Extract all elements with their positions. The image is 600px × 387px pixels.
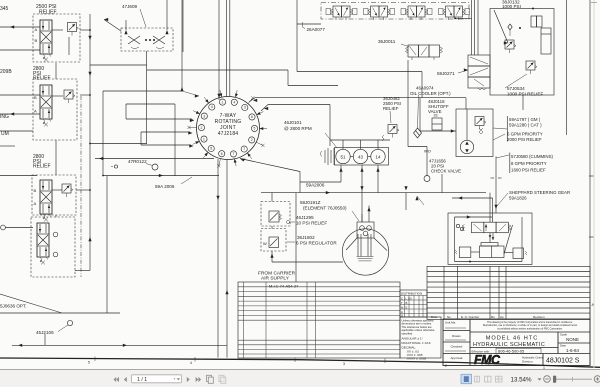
svg-text:7: 7 xyxy=(243,147,245,151)
svg-text:Ap: Ap xyxy=(500,315,504,319)
svg-text:RELIEF: RELIEF xyxy=(33,164,51,170)
svg-text:RELIEF: RELIEF xyxy=(39,10,57,16)
svg-text:33: 33 xyxy=(434,114,438,118)
svg-text:RELIEF: RELIEF xyxy=(383,106,399,111)
svg-text:NONE: NONE xyxy=(566,337,579,342)
svg-text:CHECK VALVE: CHECK VALVE xyxy=(431,169,461,174)
svg-text:59A2006: 59A2006 xyxy=(306,183,325,188)
svg-text:UM: UM xyxy=(1,131,9,137)
svg-text:No: No xyxy=(447,315,451,319)
svg-text:4: 4 xyxy=(211,105,213,109)
svg-text:2: 2 xyxy=(445,364,447,368)
svg-text:1000 PSI: 1000 PSI xyxy=(502,4,521,9)
svg-text:2: 2 xyxy=(251,138,253,142)
svg-text:Approval: Approval xyxy=(451,356,463,360)
svg-text:AIR SUPPLY: AIR SUPPLY xyxy=(261,276,290,282)
svg-text:10 PSI RELIEF: 10 PSI RELIEF xyxy=(296,221,327,226)
svg-text:ING: ING xyxy=(0,114,9,120)
svg-text:1000 PSI RELIEF: 1000 PSI RELIEF xyxy=(507,92,543,97)
svg-text:59A1826: 59A1826 xyxy=(509,196,527,201)
svg-text:1: 1 xyxy=(222,100,224,104)
svg-text:Unit Ma: Unit Ma xyxy=(445,321,456,325)
svg-text:2: 2 xyxy=(201,126,203,130)
svg-text:WO: WO xyxy=(424,149,431,154)
svg-text:Bu: Bu xyxy=(491,315,495,319)
svg-text:RELIEF: RELIEF xyxy=(33,76,51,82)
svg-text:B: B xyxy=(34,188,37,193)
svg-text:Revision: Revision xyxy=(533,315,545,319)
svg-text:14: 14 xyxy=(376,155,381,160)
svg-text:Date: Date xyxy=(560,344,566,348)
svg-text:47J609: 47J609 xyxy=(122,4,138,9)
svg-text:1: 1 xyxy=(203,137,205,141)
svg-text:1 / 1: 1 / 1 xyxy=(137,377,147,383)
svg-text:3: 3 xyxy=(244,106,246,110)
svg-text:59A 2006: 59A 2006 xyxy=(155,184,175,189)
svg-text:B: B xyxy=(34,95,37,100)
svg-text:FMC: FMC xyxy=(474,353,501,367)
svg-text:L 1/0: L 1/0 xyxy=(406,296,413,300)
svg-text:4: 4 xyxy=(233,101,235,105)
svg-text:is prohibited without written: is prohibited without written authorizat… xyxy=(497,327,563,330)
svg-text:.XXXX ± .0005: .XXXX ± .0005 xyxy=(406,357,427,361)
svg-text:MODEL 46 HTC: MODEL 46 HTC xyxy=(486,336,539,342)
svg-text:1-6-84: 1-6-84 xyxy=(566,348,580,353)
svg-text:46A0974: 46A0974 xyxy=(416,86,434,91)
svg-text:806-46-500-05: 806-46-500-05 xyxy=(498,349,525,354)
svg-text:5: 5 xyxy=(88,361,90,365)
svg-text:5: 5 xyxy=(254,127,256,131)
svg-text:HYDRAULIC SCHEMATIC: HYDRAULIC SCHEMATIC xyxy=(473,342,545,348)
svg-text:6: 6 xyxy=(251,115,253,119)
svg-text:59A1797 ( GM ): 59A1797 ( GM ) xyxy=(509,117,541,122)
svg-text:5J0636 OPT.: 5J0636 OPT. xyxy=(0,304,27,309)
svg-text:E. O. Number: E. O. Number xyxy=(461,315,479,319)
svg-text:ANGULAR ± 1°: ANGULAR ± 1° xyxy=(402,337,424,341)
svg-text:4: 4 xyxy=(190,361,192,365)
svg-text:5: 5 xyxy=(210,147,212,151)
svg-text:57J0580 (CUMMINS): 57J0580 (CUMMINS) xyxy=(511,154,554,159)
svg-text:345: 345 xyxy=(0,6,9,12)
svg-text:specified.: specified. xyxy=(402,331,414,335)
svg-text:1600 PSI RELIEF: 1600 PSI RELIEF xyxy=(511,168,546,173)
svg-text:13.54%: 13.54% xyxy=(511,376,532,383)
svg-text:209B: 209B xyxy=(0,69,12,75)
svg-text:DISTRIBUTION: DISTRIBUTION xyxy=(401,291,422,295)
svg-text:Drawn: Drawn xyxy=(452,334,461,338)
svg-text:58J0191Z: 58J0191Z xyxy=(300,200,321,205)
svg-text:6 PSI REGULATOR: 6 PSI REGULATOR xyxy=(296,241,337,246)
svg-text:B: B xyxy=(35,38,38,43)
svg-text:SHEPPARD STEERING GEAR: SHEPPARD STEERING GEAR xyxy=(509,190,570,195)
svg-text:3: 3 xyxy=(203,114,205,118)
svg-text:59J0271: 59J0271 xyxy=(437,71,455,76)
svg-text:6: 6 xyxy=(221,152,223,156)
svg-text:T: T xyxy=(401,301,403,305)
svg-text:6 GPM PRIORITY: 6 GPM PRIORITY xyxy=(507,132,543,137)
svg-text:Scale: Scale xyxy=(560,333,567,337)
svg-text:36J1802: 36J1802 xyxy=(297,235,315,240)
svg-text:A: A xyxy=(35,27,38,32)
svg-text:47R0122: 47R0122 xyxy=(128,159,147,164)
svg-text:C: C xyxy=(401,296,403,300)
svg-text:46J0101: 46J0101 xyxy=(284,120,302,125)
svg-text:46J1295: 46J1295 xyxy=(296,215,314,220)
svg-text:47J2184: 47J2184 xyxy=(218,131,239,137)
svg-text:E: E xyxy=(406,305,408,309)
svg-text:59A1280 ( CAT ): 59A1280 ( CAT ) xyxy=(509,123,542,128)
svg-text:(ELEMENT 76J0550): (ELEMENT 76J0550) xyxy=(303,206,347,211)
svg-text:FRACTIONAL ± 1/16: FRACTIONAL ± 1/16 xyxy=(402,341,431,345)
svg-text:Division: Division xyxy=(522,360,533,364)
svg-text:2000 PSI RELIEF: 2000 PSI RELIEF xyxy=(507,137,542,142)
svg-text:26A0077: 26A0077 xyxy=(307,27,326,32)
svg-text:A: A xyxy=(34,201,37,206)
svg-text:36J0011: 36J0011 xyxy=(378,39,396,44)
svg-text:@ 2800 RPM: @ 2800 RPM xyxy=(284,126,312,131)
svg-text:7: 7 xyxy=(233,152,235,156)
svg-text:Date: Date xyxy=(431,315,438,319)
svg-text:43: 43 xyxy=(358,155,363,160)
svg-text:B: B xyxy=(406,301,408,305)
svg-text:57J0534: 57J0534 xyxy=(507,86,525,91)
svg-text:48J0102 S: 48J0102 S xyxy=(546,358,580,365)
svg-text:OIL COOLER (OPT.): OIL COOLER (OPT.) xyxy=(410,91,451,96)
svg-text:A: A xyxy=(34,109,37,114)
svg-text:3: 3 xyxy=(343,362,345,366)
svg-text:Checked: Checked xyxy=(451,345,463,349)
svg-text:W: W xyxy=(263,241,267,246)
svg-text:8 GPM PRIORITY: 8 GPM PRIORITY xyxy=(511,161,547,166)
svg-text:51: 51 xyxy=(341,155,346,160)
svg-text:M.I.C 74-A54-27: M.I.C 74-A54-27 xyxy=(269,283,299,288)
